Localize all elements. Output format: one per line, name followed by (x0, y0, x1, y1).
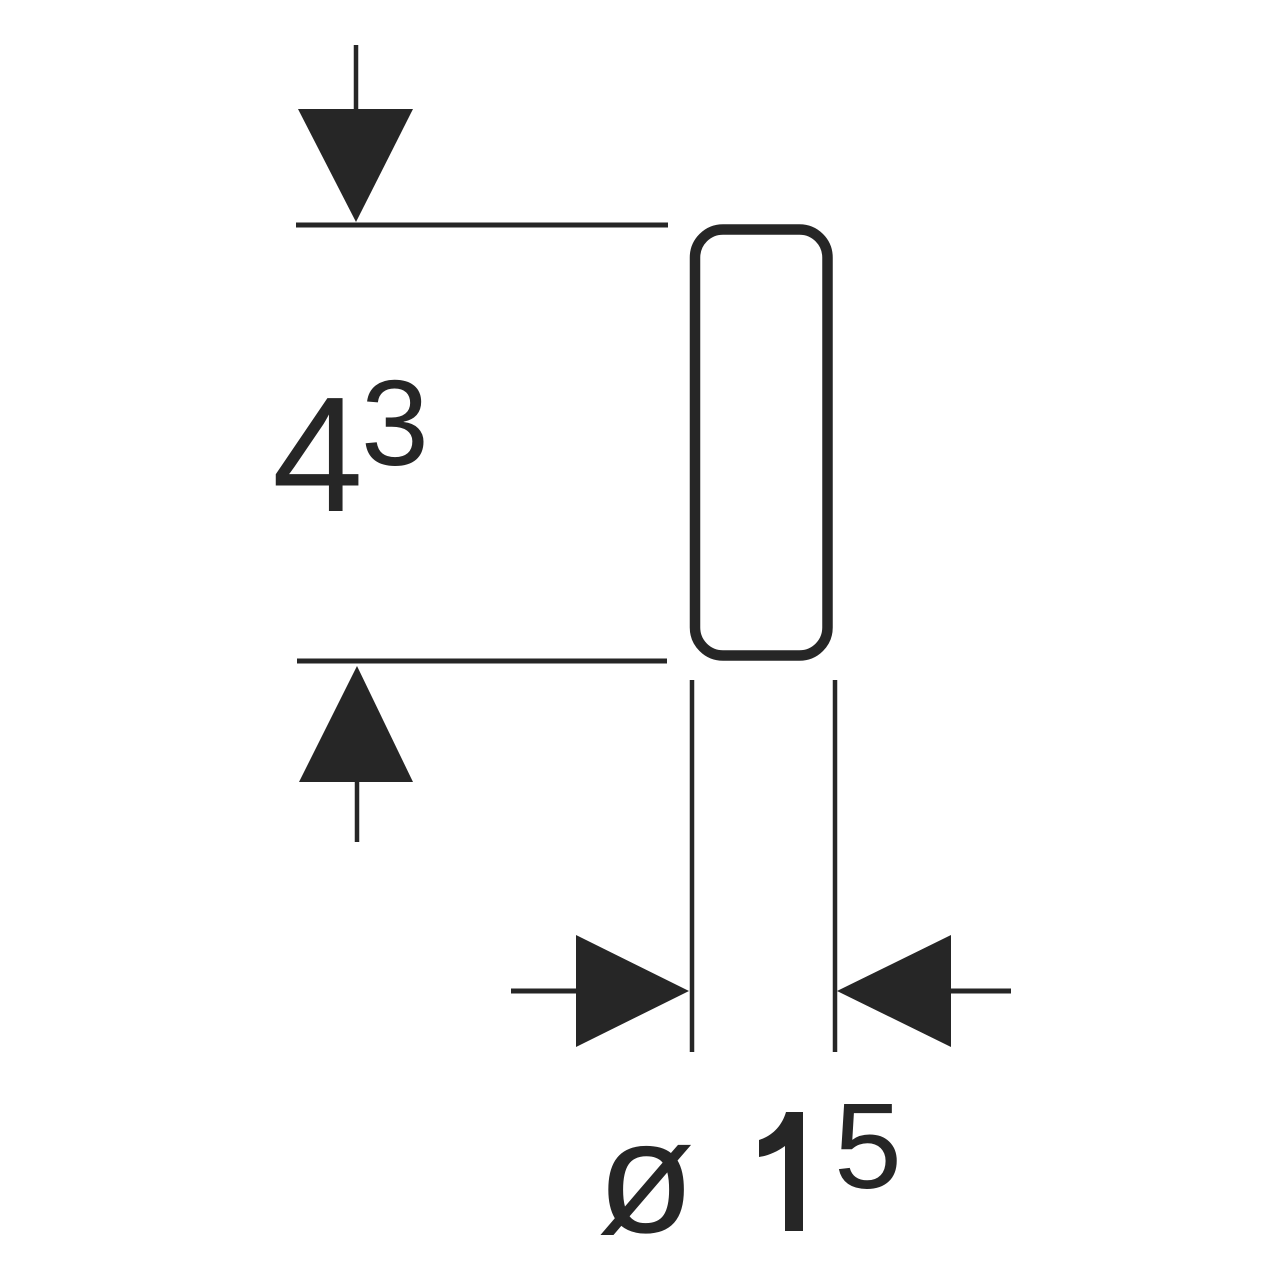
vertical leader line below bottom arrow (355, 782, 360, 842)
right extension line (833, 680, 838, 1052)
svg-text:5: 5 (834, 1078, 902, 1214)
right horizontal leader line (951, 989, 1011, 994)
svg-text:4: 4 (272, 363, 363, 546)
left extension line (690, 680, 695, 1052)
dimension digit 1 (custom narrow-flag glyph) (759, 1112, 803, 1231)
left horizontal leader line (511, 989, 578, 994)
top arrowhead pointing down (298, 109, 413, 222)
pill profile outline (695, 230, 828, 656)
svg-text:3: 3 (361, 355, 429, 491)
bottom arrowhead pointing up (299, 666, 413, 782)
lower dimension line (297, 659, 667, 664)
svg-text:ø: ø (597, 1087, 695, 1266)
top dimension line (296, 223, 668, 228)
vertical leader line above top arrow (354, 45, 359, 112)
left arrowhead pointing right (576, 935, 689, 1047)
right arrowhead pointing left (837, 935, 951, 1047)
